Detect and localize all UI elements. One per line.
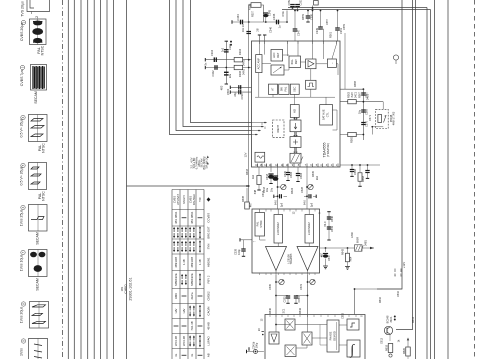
resistor R618	[389, 335, 391, 341]
svg-text:C338: C338	[233, 248, 237, 255]
svg-text:CTL: CTL	[326, 112, 330, 117]
capacitor C647 electrolytic	[325, 248, 327, 252]
trimmer CT4	[310, 279, 315, 284]
svg-text:C359: C359	[342, 23, 346, 30]
wire pot bottom net	[372, 126, 383, 128]
IC U1 block hue tall	[320, 105, 333, 125]
capacitor C353 electrolytic	[295, 5, 300, 7]
svg-text:C320: C320	[283, 170, 287, 177]
svg-text:10n: 10n	[241, 27, 245, 32]
svg-text:4L: 4L	[190, 353, 194, 357]
IC U1 pin numbers bottom	[255, 165, 338, 167]
svg-text:BC548: BC548	[386, 315, 390, 323]
resistor R356	[251, 3, 261, 8]
IC U1 left pin wires junctions	[252, 122, 268, 124]
svg-text:C349: C349	[315, 27, 319, 34]
IC U1 right loop wire	[333, 110, 338, 130]
wire bus B line 2 with elbow to IC1	[176, 0, 252, 131]
svg-text:1k2: 1k2	[251, 174, 255, 179]
svg-text:0.5 V≈ 26μs: 0.5 V≈ 26μs	[20, 118, 24, 137]
svg-text:LUPAO: LUPAO	[207, 336, 211, 346]
wire down a	[275, 275, 277, 315]
IC U3 pin ticks top	[270, 315, 356, 318]
svg-text:C346: C346	[268, 26, 272, 33]
svg-text:R642: R642	[341, 248, 345, 255]
svg-text:C344: C344	[236, 14, 240, 21]
svg-text:4B AB: 4B AB	[207, 322, 211, 330]
svg-text:600R: 600R	[356, 237, 360, 243]
table row 5 cells	[174, 257, 211, 268]
svg-text:5p6: 5p6	[310, 202, 314, 207]
svg-text:SEC: SEC	[292, 86, 296, 91]
svg-text:5p6: 5p6	[280, 202, 284, 207]
IC U3 internal wires	[275, 315, 277, 333]
svg-text:1.4B: 1.4B	[198, 259, 202, 265]
waveform box 2	[30, 19, 47, 45]
capacitor C324	[297, 167, 299, 173]
IC U1 block demod1	[290, 120, 301, 132]
capacitor C312	[239, 90, 241, 94]
svg-text:4HB-177/05: 4HB-177/05	[392, 111, 396, 125]
transistor T601	[384, 326, 392, 334]
wire IC2 left input	[240, 239, 252, 241]
IC U1 chain double arrows	[293, 132, 295, 136]
capacitor C306	[224, 72, 229, 75]
svg-text:R366: R366	[353, 80, 357, 87]
capacitor C318 electrolytic	[270, 167, 272, 172]
node j1	[248, 21, 250, 23]
svg-text:1Vss 20μs: 1Vss 20μs	[20, 306, 24, 323]
svg-text:64.0: 64.0	[274, 199, 278, 205]
svg-text:C345: C345	[272, 13, 276, 20]
IC U3 block pll tall	[327, 320, 339, 352]
svg-text:C347: C347	[296, 29, 300, 36]
svg-text:TVS 20μs: TVS 20μs	[21, 1, 25, 17]
svg-text:2C: 2C	[257, 328, 261, 331]
svg-text:64.0: 64.0	[303, 199, 307, 205]
svg-text:R368: R368	[361, 175, 365, 182]
IC U1 block ident dashed	[273, 120, 285, 138]
svg-text:CAO/N: CAO/N	[207, 307, 211, 316]
wire IC2 right out	[320, 247, 375, 249]
svg-text:10u: 10u	[265, 187, 269, 192]
svg-text:CCVBS: CCVBS	[207, 213, 211, 223]
svg-text:ABGN1: ABGN1	[207, 257, 211, 267]
IC U3 block limiter	[347, 319, 359, 330]
svg-text:C310: C310	[240, 93, 244, 100]
svg-text:C366: C366	[353, 168, 357, 175]
terminal input left	[231, 20, 233, 23]
wire pin to IC2 b	[306, 167, 308, 209]
svg-text:ATV/SAT: ATV/SAT	[176, 194, 180, 205]
IC U2 amp triangle 1	[266, 247, 287, 271]
svg-text:DEMOD: DEMOD	[333, 331, 337, 341]
wire right net into IC3	[355, 289, 403, 315]
svg-text:C334: C334	[297, 296, 301, 303]
IC U2 bottom pins	[275, 271, 277, 276]
svg-text:-2: -2	[35, 16, 39, 19]
svg-text:C302: C302	[211, 70, 215, 77]
capacitor C344	[241, 20, 243, 25]
waveform box 9 marks	[34, 344, 42, 358]
IC U3 block mult2	[302, 332, 312, 345]
wire bus B line 1 with elbow to IC1	[170, 0, 252, 135]
capacitor C302	[215, 65, 217, 70]
svg-text:C318: C318	[265, 173, 269, 180]
capacitor C64a stack	[328, 212, 330, 241]
table row 4 cells	[173, 240, 210, 253]
IC U1 block gain ctl	[271, 65, 284, 75]
capacitor C369	[361, 110, 365, 112]
svg-text:C331: C331	[299, 283, 303, 290]
IC U1 block row b3	[290, 84, 299, 94]
IC U2 block delay2	[305, 215, 314, 244]
svg-text:R357: R357	[250, 10, 254, 17]
svg-text:PAL/SEC: PAL/SEC	[192, 194, 196, 205]
svg-text:2k2: 2k2	[315, 175, 319, 180]
scatter labels main area	[204, 10, 415, 344]
capacitor C310	[239, 85, 241, 89]
svg-text:3u3: 3u3	[221, 47, 225, 52]
capacitor C345	[277, 20, 279, 25]
IC U2 block delay1	[274, 215, 283, 244]
IC U3 block tri-down	[269, 332, 279, 344]
IC U1 internal wires	[259, 44, 261, 55]
waveform box 7 burst blobs	[30, 252, 45, 272]
svg-text:DET: DET	[294, 59, 298, 65]
wire down b	[307, 275, 309, 315]
svg-text:0.5 V≈ 26μs: 0.5 V≈ 26μs	[20, 166, 24, 185]
svg-text:NTSC: NTSC	[42, 191, 46, 201]
resistor R320 below IC1	[258, 167, 260, 175]
svg-text:4B91/2B: 4B91/2B	[174, 257, 178, 268]
node 8 circled	[21, 302, 25, 306]
svg-text:Q300: Q300	[226, 88, 230, 95]
node j2	[265, 21, 267, 23]
svg-text:R367: R367	[358, 91, 362, 98]
svg-text:+12V: +12V	[402, 262, 406, 268]
labels below IC1 pins	[253, 170, 319, 197]
IC U3 block mult3	[285, 345, 296, 357]
svg-text:1.4B: 1.4B	[182, 259, 186, 265]
waveform box 4 humps	[31, 119, 44, 137]
wire R620 top arrow	[407, 341, 409, 347]
wire bus A line 5	[93, 0, 95, 359]
svg-text:34C1: 34C1	[354, 91, 358, 98]
connector plug top	[314, 1, 319, 6]
svg-text:C641: C641	[330, 225, 334, 232]
IC U3 TDA4565 outline	[265, 315, 365, 359]
trimmer CT2	[308, 184, 313, 189]
mode table grid	[172, 190, 204, 359]
svg-text:64.0: 64.0	[323, 221, 327, 227]
wire bus A line 6	[100, 0, 102, 359]
svg-text:R64: R64	[349, 256, 353, 261]
waveform box 8	[30, 302, 49, 329]
node 9 circled	[21, 339, 25, 343]
capacitor on L302	[224, 50, 229, 52]
svg-text:C353: C353	[299, 0, 303, 6]
capacitor C326 trim	[274, 195, 278, 197]
wire loop to R356	[249, 5, 251, 22]
svg-text:SYN: SYN	[207, 244, 211, 250]
resistor R306	[234, 65, 243, 69]
IC U2 pin ticks	[260, 209, 315, 275]
svg-text:BRG EXT: BRG EXT	[207, 226, 211, 239]
svg-text:6EPa: 6EPa	[190, 292, 194, 299]
svg-text:R324: R324	[290, 187, 294, 194]
IC U2 amp triangle 2	[297, 247, 318, 271]
capacitor C349	[320, 11, 322, 27]
svg-text:C612: C612	[380, 337, 384, 344]
svg-text:NTSC: NTSC	[42, 143, 46, 153]
resistor R368	[359, 165, 361, 172]
svg-text:SECAM: SECAM	[36, 232, 40, 245]
resistor R365	[348, 132, 357, 136]
svg-text:CVBS: CVBS	[188, 196, 192, 204]
IC U1 bus wire internal	[255, 96, 335, 98]
svg-text:R356: R356	[248, 3, 252, 10]
svg-text:R304: R304	[238, 48, 242, 55]
svg-text:UA/: UA/	[182, 308, 186, 313]
wire chroma in 1	[205, 59, 251, 61]
capacitor C322	[287, 167, 289, 172]
waveform box 6 ident step	[31, 217, 44, 220]
svg-text:R612: R612	[411, 316, 415, 323]
waveform box 9	[29, 339, 48, 359]
note arrows	[207, 156, 209, 158]
wire right bus line x434	[434, 0, 436, 359]
capacitor C351	[337, 11, 339, 28]
wire bus A line 3	[80, 0, 82, 359]
wire xtal net 2	[230, 91, 251, 93]
wire vertical x363	[362, 89, 364, 140]
trimmer CT3	[279, 279, 284, 284]
capacitor C347	[294, 11, 296, 29]
svg-text:R342: R342	[298, 307, 302, 314]
svg-text:C369: C369	[365, 108, 369, 115]
svg-text:SW: SW	[280, 87, 284, 92]
wire input net y22	[232, 21, 287, 23]
table row 6 cells	[174, 273, 211, 286]
svg-text:CHRO: CHRO	[123, 284, 127, 294]
wire right bus line x430 from top bus	[430, 10, 432, 359]
waveform box 4	[29, 115, 48, 142]
left page border dash-dot line	[62, 0, 64, 359]
node 3 circled	[20, 65, 24, 69]
capacitor C343 electrolytic	[263, 12, 268, 14]
svg-text:R316: R316	[245, 168, 249, 175]
table row 7 cells	[174, 291, 211, 300]
wire bus A line 1	[67, 0, 69, 359]
svg-text:1Vss: 1Vss	[20, 348, 24, 356]
wire right bus line x415	[415, 0, 417, 359]
svg-text:12V: 12V	[243, 152, 247, 157]
waveform box 3	[31, 65, 47, 91]
svg-text:100p: 100p	[237, 249, 241, 255]
svg-text:34A1: 34A1	[242, 59, 246, 66]
capacitor C342 on rail	[246, 32, 251, 34]
IC U1 bottom pin stubs	[258, 164, 339, 168]
svg-text:SAT HUE: SAT HUE	[322, 109, 326, 120]
pin ticks IC3 top right	[395, 269, 401, 273]
node 6 circled	[21, 205, 25, 209]
capacitor C368	[367, 165, 369, 170]
svg-text:SECAM: SECAM	[34, 91, 38, 104]
waveform box 5	[29, 163, 47, 190]
svg-text:MBRN/2E: MBRN/2E	[174, 273, 178, 286]
svg-text:4B1 4B91: 4B1 4B91	[190, 211, 194, 224]
svg-text:MTRX: MTRX	[259, 220, 263, 228]
svg-text:22u: 22u	[228, 73, 232, 78]
svg-text:34C1: 34C1	[389, 316, 393, 323]
potentiometer P6048 dashed box	[376, 109, 389, 128]
svg-text:R359: R359	[301, 13, 305, 20]
wire bus A line 7	[106, 0, 108, 359]
resistor R362	[348, 100, 357, 104]
waveform box 6	[29, 205, 48, 232]
svg-text:R330: R330	[311, 170, 315, 177]
table row 8 cells	[174, 305, 211, 318]
svg-text:WF4 4B: WF4 4B	[174, 336, 178, 346]
svg-text:R620: R620	[402, 347, 406, 354]
IC U1 TDA4555 outline	[252, 41, 341, 167]
IC U1 block demod2	[290, 137, 301, 148]
wire xtal net 1	[230, 86, 251, 88]
IC U1 block ACC amp	[256, 55, 262, 73]
svg-text:PBY 2: PBY 2	[207, 275, 211, 283]
wire top supply bus 2	[282, 9, 431, 11]
wire IC3 left in	[240, 329, 269, 331]
svg-text:R340: R340	[268, 307, 272, 314]
svg-text:R306: R306	[238, 70, 242, 77]
wire net into IC2 left	[246, 188, 248, 202]
IC U3 block mult1	[285, 319, 295, 330]
node j3	[286, 21, 288, 23]
IC U1 block osc2	[255, 152, 265, 162]
waveform box 3 chroma stripes	[33, 66, 44, 89]
svg-text:CVBS: CVBS	[172, 196, 176, 204]
resistor R304	[234, 58, 243, 62]
svg-text:CM302: CM302	[207, 291, 211, 300]
svg-text:C647: C647	[327, 254, 331, 261]
IC U1 block osc small	[327, 59, 336, 67]
bold dots pair	[394, 316, 396, 318]
node 2 circled	[21, 20, 25, 24]
svg-text:PAL: PAL	[284, 86, 288, 91]
terminal arrow right	[370, 247, 374, 249]
svg-text:C343: C343	[267, 9, 271, 16]
node 7 circled	[21, 250, 25, 254]
svg-text:R361: R361	[328, 31, 332, 38]
wire bus A line 4	[87, 0, 89, 359]
capacitor C367	[361, 93, 365, 95]
svg-text:470n: 470n	[281, 11, 285, 17]
IC U1 block demod3 hatched	[290, 153, 301, 163]
svg-text:C610: C610	[396, 290, 400, 297]
resistor R64	[347, 248, 349, 253]
svg-text:SECAM: SECAM	[36, 278, 40, 291]
wire j3 to bus	[286, 11, 288, 23]
table row 3 cells	[173, 226, 210, 239]
svg-text:C357: C357	[325, 18, 329, 25]
svg-text:KILL: KILL	[290, 59, 294, 65]
svg-text:C332: C332	[282, 296, 286, 303]
svg-text:C322: C322	[289, 171, 293, 178]
bold polarity dots	[230, 41, 232, 43]
capacitor C328 trim	[304, 195, 307, 197]
wire bus A line 2	[73, 0, 75, 359]
svg-text:ACC: ACC	[272, 52, 276, 58]
svg-text:1Vss 10μs: 1Vss 10μs	[20, 254, 24, 271]
svg-text:3C1: 3C1	[282, 308, 286, 313]
svg-text:TDA4565: TDA4565	[289, 253, 293, 264]
IC U1 pin ticks top	[260, 41, 337, 44]
wire bus A line 8	[113, 0, 115, 359]
svg-text:34B: 34B	[253, 189, 257, 194]
wire horizontal net at y186	[127, 185, 249, 187]
right page border dashed line	[474, 0, 476, 359]
wire chroma in 2	[205, 67, 251, 69]
wire IC1 right out3	[340, 134, 363, 136]
table row 9 cells	[174, 321, 211, 330]
svg-text:4B91/2B: 4B91/2B	[190, 257, 194, 268]
table row 2 cells	[174, 211, 211, 224]
inductor 600R bead	[355, 245, 363, 251]
IC U1 block row b1	[269, 84, 278, 94]
table row 10 cells	[174, 335, 211, 348]
svg-text:7A1.4B: 7A1.4B	[190, 321, 194, 330]
IC U2 block left	[255, 213, 265, 237]
wire pin4 stub	[259, 35, 261, 41]
svg-text:NTSC: NTSC	[41, 45, 45, 55]
wire bus B line 4 with elbow to IC1	[191, 0, 252, 123]
IC U3 block integrator	[347, 340, 360, 357]
svg-text:H/2: H/2	[292, 108, 296, 113]
wire right bus line x427 from top bus	[426, 8, 428, 359]
svg-text:PAL: PAL	[256, 221, 260, 226]
potentiometer P6048 element	[378, 115, 382, 123]
IC U2 internal wires	[277, 243, 279, 247]
table row 1 cells	[172, 194, 210, 205]
svg-text:R618: R618	[385, 344, 389, 351]
table row 11 cells	[174, 353, 211, 357]
IC U1 block mid tall	[290, 105, 299, 118]
svg-text:C352: C352	[341, 312, 345, 319]
svg-text:R365: R365	[350, 136, 354, 143]
svg-text:C326: C326	[300, 186, 304, 193]
svg-text:C640: C640	[330, 215, 334, 222]
wire right bus line x402 with elbow at bottom	[377, 0, 402, 289]
IC U1 block killer	[289, 56, 301, 68]
svg-text:34A1: 34A1	[242, 68, 246, 75]
svg-text:(TDA4560): (TDA4560)	[326, 143, 330, 157]
svg-text:MULTI: MULTI	[182, 195, 186, 203]
wire vertical rail x248	[248, 22, 250, 202]
svg-text:7k15: 7k15	[350, 92, 354, 98]
IC U1 block pulse	[306, 80, 316, 89]
capacitor C304	[214, 57, 216, 62]
svg-text:4B1 4B91: 4B1 4B91	[174, 211, 178, 224]
svg-text:4B3: 4B3	[220, 85, 224, 90]
wire IC1 right out2	[340, 101, 383, 103]
svg-text:MBRN/2E: MBRN/2E	[190, 273, 194, 286]
svg-text:LUMINANZ: LUMINANZ	[276, 222, 280, 235]
svg-text:1B1: 1B1	[120, 286, 124, 291]
svg-text:C314: C314	[261, 190, 265, 197]
svg-text:C352: C352	[287, 0, 291, 6]
svg-text:ACC AMP: ACC AMP	[257, 58, 261, 70]
